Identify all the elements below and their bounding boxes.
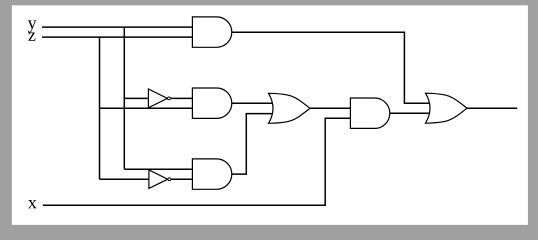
input label x — [28, 200, 37, 208]
wire z to inverter U5 — [100, 178, 149, 180]
wire rail z branch — [99, 37, 101, 179]
wire rail y branch — [123, 27, 125, 169]
OR gate U8 (final output) — [426, 93, 468, 123]
wire input y to U1 — [42, 26, 192, 28]
wire U6 output to U7 top input — [310, 107, 350, 109]
wire input z to U1 — [42, 36, 192, 38]
input label y — [28, 20, 37, 32]
wire U3 output to U6 top input — [232, 102, 273, 104]
wire U1 output to U8 top input — [232, 32, 430, 103]
OR gate U6 (xor combine) — [269, 93, 311, 123]
wire U5 output to U4 — [171, 178, 192, 180]
inverter U2 (NOT y) — [148, 89, 170, 108]
AND gate U7 (x AND xor) — [350, 98, 389, 128]
wire y to U4 top input — [124, 168, 192, 170]
wire y to inverter U2 — [124, 97, 148, 99]
wire U4 output to U6 bottom input — [232, 114, 273, 175]
wire U2 output to U3 — [171, 97, 193, 99]
AND gate U1 (y AND z) — [192, 17, 231, 47]
AND gate U4 (y AND NOT z) — [192, 159, 231, 189]
wire input x to U7 bottom input — [43, 118, 351, 205]
AND gate U3 (NOT y AND z) — [192, 88, 231, 118]
wire U8 output — [467, 107, 517, 109]
wire z to U3 bottom input — [100, 107, 193, 109]
inverter U5 (NOT z) — [149, 170, 171, 188]
wire U7 output to U8 bottom input — [390, 112, 430, 114]
input label z — [28, 33, 35, 41]
